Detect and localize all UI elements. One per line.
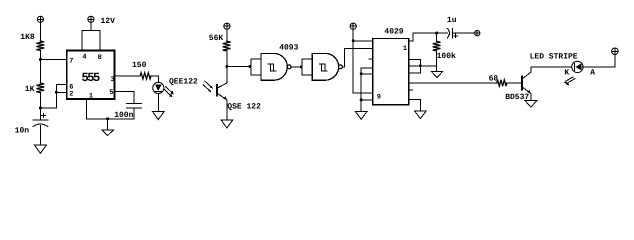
wire U3 out to C3: [409, 33, 448, 41]
ground GND4: [221, 120, 233, 128]
svg-text:8: 8: [98, 54, 102, 62]
node G junction: [352, 39, 355, 42]
svg-text:4093: 4093: [279, 43, 298, 52]
wire VCC bracket pins 4,8: [82, 30, 100, 49]
transistor Q1 QSE122 phototransistor: [203, 81, 227, 100]
wire node H down: [360, 74, 362, 100]
svg-text:4: 4: [82, 54, 86, 62]
wire C1 to ground: [39, 125, 41, 145]
wire R3 to LED D1: [151, 76, 158, 82]
svg-text:2: 2: [69, 91, 73, 99]
svg-text:1K8: 1K8: [20, 33, 35, 42]
wire R4 to node D: [226, 51, 228, 83]
resistor R4 56K: [223, 41, 231, 51]
svg-text:5: 5: [109, 89, 113, 97]
node F junction: [300, 65, 303, 68]
power terminal P5: [612, 48, 619, 55]
wire Q2 collector to LED D2: [531, 66, 572, 68]
svg-text:555: 555: [82, 70, 101, 84]
resistor R6 68: [497, 80, 507, 86]
power terminal P3: [224, 23, 230, 29]
node C junction: [106, 117, 109, 120]
wire Q2 emitter to ground: [530, 94, 532, 101]
svg-text:3: 3: [110, 76, 114, 84]
wire node A to 555 pin 7: [40, 58, 65, 60]
svg-text:A: A: [590, 68, 595, 77]
wire R1 to node A: [39, 50, 41, 59]
IC U3 4029: [373, 38, 409, 104]
ground GND1: [35, 145, 47, 153]
wire C3 to P6: [452, 32, 474, 34]
node J junction: [435, 32, 438, 35]
svg-text:4029: 4029: [384, 27, 403, 36]
wire node C to ground: [107, 119, 109, 130]
svg-text:QEE122: QEE122: [169, 77, 198, 86]
ground GND2: [153, 112, 165, 120]
capacitor C3 1u polarized: [447, 28, 457, 38]
wire node D to gate G1 input: [227, 65, 251, 67]
transistor Q2 BD537: [522, 67, 531, 94]
node B junction: [39, 106, 42, 109]
wire node G down to U3 lower pin: [353, 41, 373, 93]
svg-text:1K: 1K: [25, 85, 35, 94]
wire node B to C1: [39, 108, 41, 120]
svg-text:1: 1: [89, 93, 93, 101]
resistor R3 150: [140, 73, 151, 79]
node K junction: [419, 64, 422, 67]
wire node K to R5 bottom: [421, 65, 437, 67]
wire node I to U3: [361, 99, 373, 101]
wire P1 to R1: [39, 22, 41, 41]
wire node B to pins 6/2 tie bar: [40, 84, 65, 108]
node A junction: [39, 58, 42, 61]
wire U2A out to U2B in: [291, 66, 302, 68]
power terminal P2 12V: [88, 16, 94, 22]
wire U3 pin to ground right: [409, 99, 421, 111]
svg-text:9: 9: [377, 94, 381, 102]
svg-text:7: 7: [69, 57, 73, 65]
wire U3 stub pin right: [409, 89, 413, 91]
wire node I to ground: [360, 100, 362, 112]
svg-text:QSE 122: QSE 122: [227, 103, 261, 112]
power terminal P1: [37, 16, 43, 22]
wire R5 top: [436, 33, 438, 41]
wire U2B out to U3 clock: [342, 49, 373, 67]
wire Q1 emitter to ground: [226, 100, 228, 120]
wire U3 to R6 base line: [409, 82, 497, 84]
capacitor C1 10n polarized: [33, 113, 48, 126]
svg-text:K: K: [564, 68, 569, 77]
ground GND3: [102, 130, 114, 136]
node I junction: [360, 98, 363, 101]
ground GND5: [355, 112, 367, 120]
svg-text:56K: 56K: [209, 34, 224, 43]
resistor R5 100k: [433, 41, 441, 51]
resistor R2 1K: [36, 83, 44, 93]
ground GND6: [431, 71, 443, 77]
capacitor C2 100n: [126, 103, 141, 108]
ground GND7: [415, 111, 427, 119]
svg-text:150: 150: [132, 61, 147, 70]
wire P3 to R4: [226, 29, 228, 41]
LED D2 LED STRIPE: [563, 61, 583, 85]
svg-text:100k: 100k: [437, 52, 456, 61]
wire U3 stub pin: [369, 58, 373, 60]
wire R5 to ground: [436, 51, 438, 71]
wire C2 to ground node: [87, 108, 134, 119]
nand gate U2B 4093: [302, 53, 342, 80]
svg-text:10n: 10n: [15, 127, 30, 136]
wire R2 to node B: [39, 93, 41, 108]
svg-text:1u: 1u: [447, 16, 457, 25]
wire P4 down: [352, 29, 354, 41]
node E junction: [248, 65, 251, 68]
wire R6 to Q2 base: [507, 82, 521, 84]
wire node A down to R2: [39, 59, 41, 83]
node pin2 junction: [55, 91, 58, 94]
power terminal P4: [350, 23, 356, 29]
wire U3 tied pins bracket right upper: [409, 59, 421, 72]
node D junction: [225, 65, 228, 68]
wire P2 to bracket: [90, 22, 92, 30]
ground GND8: [525, 101, 537, 108]
wire U3 tied pins bracket: [361, 68, 373, 74]
svg-text:LED STRIPE: LED STRIPE: [530, 53, 578, 62]
wire D1 to ground: [157, 94, 159, 112]
LED D1 QEE122: [153, 82, 174, 97]
wire D2 to P5: [583, 55, 615, 67]
wire 555 pin 1 down: [86, 100, 88, 119]
wire 555 pin 5 to C2: [116, 91, 134, 103]
svg-text:1: 1: [403, 45, 407, 53]
nand gate U2A 4093: [251, 53, 291, 80]
wire node G to U3: [353, 40, 373, 42]
node H junction: [360, 72, 363, 75]
IC U1 555: [67, 51, 115, 99]
svg-text:12V: 12V: [101, 17, 116, 26]
power terminal P6: [475, 30, 480, 35]
resistor R1 1K8: [36, 41, 44, 50]
wire 555 pin 3 to R3: [116, 75, 141, 77]
